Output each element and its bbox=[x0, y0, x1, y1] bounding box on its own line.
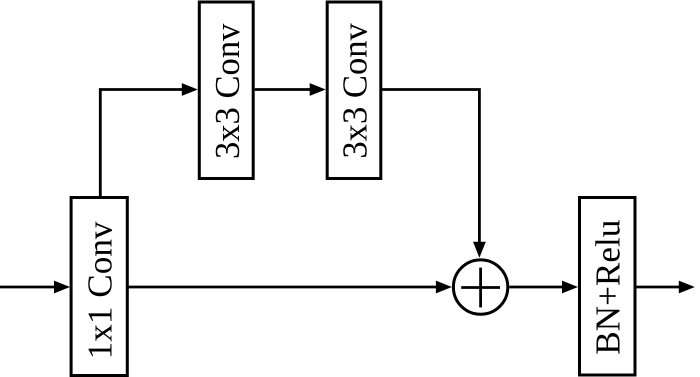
svg-text:BN+Relu: BN+Relu bbox=[589, 220, 628, 355]
box 1x1 Conv bbox=[71, 198, 127, 376]
svg-text:3x3 Conv: 3x3 Conv bbox=[337, 22, 375, 158]
adder node (circle with plus) bbox=[453, 260, 507, 314]
wire from 1x1 Conv to adder bbox=[127, 281, 452, 294]
box 3x3 Conv (second) bbox=[327, 2, 381, 179]
wire from adder to BN+Relu bbox=[509, 281, 578, 294]
box 3x3 Conv (first) bbox=[199, 2, 253, 179]
svg-text:3x3 Conv: 3x3 Conv bbox=[209, 23, 247, 159]
wire branch from 1x1 Conv up and right to first 3x3 Conv bbox=[100, 83, 198, 196]
wire output arrow from BN+Relu bbox=[637, 281, 695, 294]
box BN+Relu bbox=[580, 198, 636, 376]
svg-text:1x1 Conv: 1x1 Conv bbox=[81, 221, 120, 359]
wire from second 3x3 Conv right then down into adder bbox=[381, 90, 486, 258]
wire input arrow into 1x1 Conv bbox=[0, 281, 70, 294]
wire from first 3x3 Conv to second 3x3 Conv bbox=[255, 83, 326, 96]
